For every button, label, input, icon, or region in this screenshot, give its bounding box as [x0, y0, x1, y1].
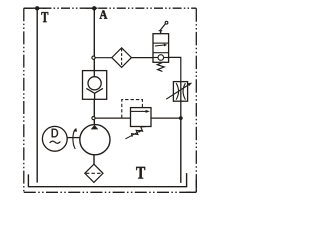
throttle arc left [176, 83, 178, 99]
check valve V1 body [83, 71, 107, 100]
hand valve position divider 2 [153, 52, 169, 54]
throttle adjust arrow [166, 85, 189, 100]
wire: riser down to tank [180, 118, 182, 183]
label T (top) [41, 12, 48, 22]
motor tilde [50, 141, 61, 143]
wire: filter to hand valve [131, 57, 153, 59]
enclosure boundary left [23, 8, 25, 192]
check valve seat [86, 88, 103, 93]
wire: T return line [36, 8, 38, 182]
port T dot [35, 6, 39, 10]
port A dot [92, 6, 96, 10]
wire: node to filter [95, 57, 112, 59]
relief valve V4 body [131, 108, 152, 127]
wire: A line upper [93, 8, 95, 70]
rotation arrow arc [73, 129, 75, 149]
hand valve lever foot [159, 30, 163, 32]
junction dot [179, 116, 183, 120]
enclosure boundary bottom [24, 191, 197, 193]
wire: relief valve to tank riser [151, 117, 181, 119]
hand valve lever knob [165, 21, 168, 24]
hand valve flow arrow [155, 45, 165, 46]
enclosure boundary top (dash-dot-dot) [24, 7, 197, 9]
rotation arrow head [73, 128, 77, 132]
wire: A line (check valve to pump) [93, 99, 95, 125]
wire: pump suction [93, 155, 95, 165]
hand valve spring [157, 62, 164, 71]
enclosure bottom-right corner solid runs [186, 180, 196, 193]
relief valve arrow [131, 110, 146, 112]
hand valve V2 body [153, 34, 169, 63]
wire: hand valve to throttle riser [169, 57, 181, 81]
motor letter D [52, 129, 58, 138]
motor M1 circle [42, 126, 67, 151]
label T (bottom) [136, 167, 145, 179]
relief valve spring [132, 127, 146, 137]
relief valve pilot line (dashed) [122, 100, 143, 118]
check valve ball [88, 77, 101, 90]
strainer element (dashed) [86, 172, 102, 174]
wire: pump outlet to relief valve [95, 117, 130, 119]
label A [100, 10, 108, 18]
node: test point on A line [92, 56, 95, 59]
node: test point at pump outlet [92, 117, 95, 120]
filter element (dashed) [121, 49, 123, 67]
throttle flow line [180, 82, 182, 119]
hand valve lever arm [160, 24, 166, 31]
relief valve adjust arrow [125, 131, 139, 139]
tank outline [28, 173, 186, 187]
throttle arc right [183, 83, 185, 99]
shaft motor-pump [67, 137, 80, 139]
hand valve position divider 1 [153, 42, 169, 44]
pump outlet triangle [91, 125, 99, 129]
strainer S1 diamond [85, 164, 103, 182]
hand valve poppet circle [158, 55, 164, 61]
check valve internal stubs [93, 71, 95, 100]
hand valve port line [153, 57, 169, 59]
enclosure top solid runs at port dots [24, 7, 98, 9]
hand valve lever post [160, 30, 162, 33]
pump P1 circle [80, 125, 110, 155]
throttle valve V3 body [173, 82, 187, 102]
filter F1 diamond [112, 48, 132, 68]
enclosure boundary right [195, 8, 197, 192]
